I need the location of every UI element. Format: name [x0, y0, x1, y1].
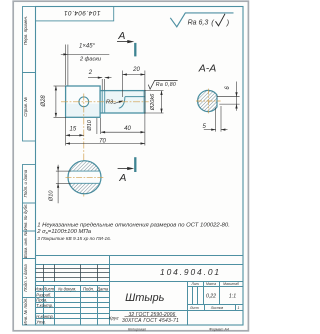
dim 1x45 chamfer note	[65, 45, 67, 86]
svg-text:20: 20	[132, 67, 140, 73]
svg-text:15: 15	[70, 126, 77, 132]
svg-text:Формат А4: Формат А4	[209, 327, 229, 331]
svg-text:Дата: Дата	[96, 287, 109, 292]
shaft	[100, 91, 145, 113]
revision table grid (dark)	[36, 265, 110, 282]
circle	[68, 161, 101, 194]
svg-text:Ø10: Ø10	[48, 190, 54, 202]
svg-text:Н.контр.: Н.контр.	[36, 314, 54, 319]
svg-text:1: 1	[238, 306, 240, 310]
dim 2 groove	[88, 78, 112, 91]
svg-text:Лист: Лист	[189, 306, 199, 310]
svg-text:Штырь: Штырь	[125, 292, 164, 304]
svg-text:Ø20k6: Ø20k6	[150, 93, 156, 111]
svg-text:0,22: 0,22	[206, 294, 216, 300]
svg-text:104.904.01: 104.904.01	[64, 9, 101, 16]
svg-text:А-А: А-А	[198, 62, 217, 74]
dim O10 under head (rotated)	[96, 118, 98, 134]
hole band lines	[69, 170, 100, 172]
dim 70	[66, 118, 145, 146]
svg-text:Лист: Лист	[42, 287, 54, 292]
Ra 0,80 mark	[148, 80, 177, 89]
dim 5	[204, 106, 228, 132]
svg-text:Пров.: Пров.	[36, 298, 47, 303]
dim Ø28	[54, 86, 66, 117]
svg-text:2 фаски: 2 фаски	[79, 56, 101, 62]
svg-text:1:1: 1:1	[229, 294, 236, 300]
svg-text:А: А	[117, 30, 125, 42]
svg-text:Инв. № подл.: Инв. № подл.	[23, 298, 28, 325]
flat edge line	[125, 96, 145, 98]
svg-text:А: А	[118, 172, 126, 184]
svg-text:Масштаб: Масштаб	[223, 282, 239, 286]
svg-text:2: 2	[88, 70, 93, 76]
dim O20k6	[145, 91, 164, 113]
surface finish general mark	[170, 13, 233, 27]
svg-text:1 Неуказанные предельные откло: 1 Неуказанные предельные отклонения разм…	[37, 223, 230, 229]
centerline vertical (hole + bottom section)	[83, 94, 85, 197]
paper sheet	[13, 1, 248, 331]
svg-text:2 σв=1100±100 МПа: 2 σв=1100±100 МПа	[36, 229, 92, 235]
dim 20 flat length	[123, 71, 145, 146]
centerline horizontal	[61, 101, 149, 103]
hatch segments	[69, 161, 100, 171]
dim 40	[101, 118, 145, 134]
svg-text:Листов: Листов	[210, 306, 224, 310]
svg-text:Лит.: Лит.	[191, 282, 200, 286]
left margin column cells	[23, 7, 36, 326]
dim O10 bottom	[56, 165, 71, 204]
svg-text:Ø28: Ø28	[41, 95, 47, 108]
svg-text:30ХГСА ГОСТ 4543-71: 30ХГСА ГОСТ 4543-71	[122, 318, 179, 324]
dim 15	[66, 134, 84, 136]
bottom circle horizontal centerline	[66, 176, 104, 178]
svg-text:40: 40	[124, 126, 131, 132]
top-left designation box	[36, 7, 114, 21]
R3 runout curve	[119, 97, 125, 108]
svg-text:Подп.: Подп.	[83, 287, 94, 292]
svg-text:3 Покрытие КВ 9.15 хр по ПИ-16: 3 Покрытие КВ 9.15 хр по ПИ-16.	[37, 236, 111, 241]
svg-text:104.904.01: 104.904.01	[160, 267, 221, 277]
svg-text:Справ. №: Справ. №	[23, 97, 28, 117]
svg-text:1×45°: 1×45°	[79, 44, 96, 50]
drawing frame	[36, 7, 244, 326]
svg-text:Т.контр.: Т.контр.	[36, 303, 53, 308]
svg-text:): )	[226, 18, 230, 27]
section centerlines	[196, 100, 221, 102]
svg-text:Ra 0,80: Ra 0,80	[156, 82, 176, 88]
groove lines	[101, 91, 103, 113]
svg-text:Копировал: Копировал	[128, 327, 146, 331]
svg-text:Подп. и дата: Подп. и дата	[23, 264, 28, 292]
svg-text:Ø10: Ø10	[87, 119, 93, 131]
svg-text:Круг: Круг	[109, 316, 119, 321]
section arrow A bottom	[118, 168, 131, 170]
svg-text:70: 70	[99, 138, 106, 144]
svg-text:№ докум.: № докум.	[58, 287, 76, 292]
svg-text:Взам. инв. №: Взам. инв. №	[23, 231, 28, 258]
svg-text:Инв. № дубл.: Инв. № дубл.	[23, 203, 28, 230]
dim 6	[217, 82, 240, 111]
hole circle	[79, 97, 89, 107]
head block	[66, 86, 101, 117]
margin cell labels	[23, 16, 28, 325]
svg-text:Перв. примен.: Перв. примен.	[23, 16, 28, 45]
svg-text:Подп. и дата: Подп. и дата	[23, 169, 28, 197]
svg-text:Утв.: Утв.	[36, 319, 46, 324]
svg-text:R3: R3	[106, 99, 114, 105]
circle with flat	[198, 90, 217, 111]
svg-text:Разраб.: Разраб.	[36, 292, 51, 297]
svg-text:Ra 6,3: Ra 6,3	[188, 20, 209, 27]
svg-text:Масса: Масса	[206, 282, 216, 286]
chamfer line at shaft end	[143, 91, 145, 113]
